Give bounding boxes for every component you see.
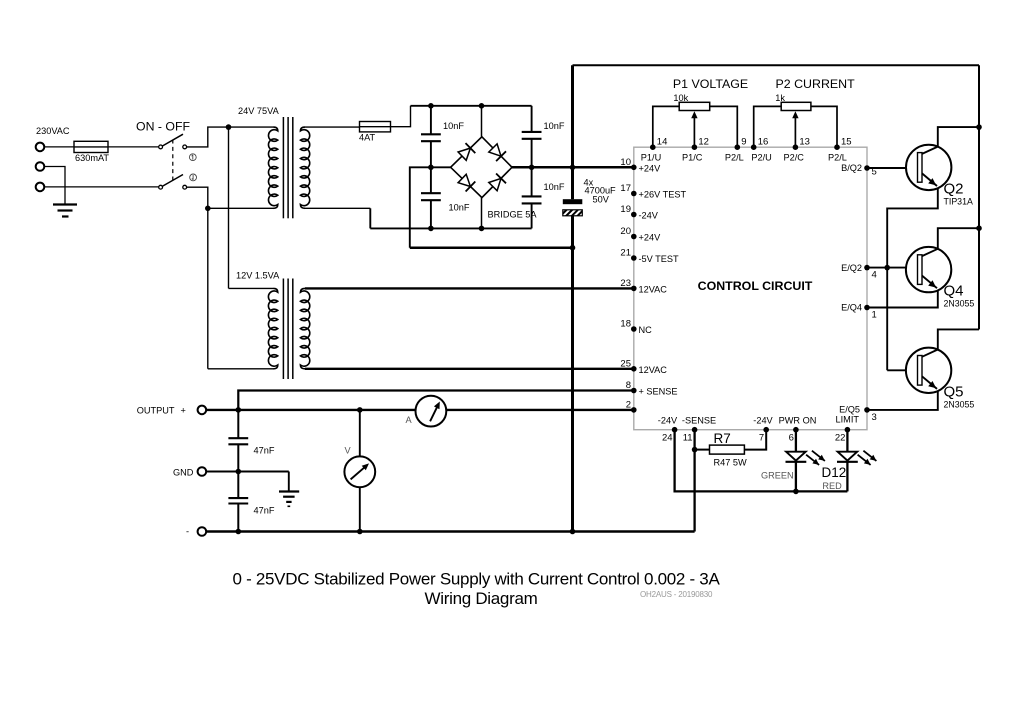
svg-text:P1/U: P1/U [641,153,661,163]
svg-text:47nF: 47nF [254,446,275,456]
wire voltmeter bottom [359,487,361,531]
svg-text:0 - 25VDC Stabilized Power Sup: 0 - 25VDC Stabilized Power Supply with C… [233,570,721,589]
wire output+ to pin 2 [206,409,634,411]
terminal GND [198,467,207,476]
terminal OUTPUT- [198,527,207,536]
svg-text:-SENSE: -SENSE [682,416,716,426]
resistor R7 [710,445,745,454]
transistor Q4 2N3055 [906,247,951,292]
pin 22 LIMIT [845,427,851,433]
fuse F1 630mAT [74,141,108,152]
svg-text:3: 3 [872,412,877,423]
wire Q2 collector [938,127,979,147]
switch S1 marker circled-1 [189,154,196,161]
wire LED green cathode [795,462,797,492]
pin 3 E/Q5 [864,407,870,413]
wire Q2 emitter [887,187,938,268]
pin 21 -5V TEST [631,255,637,261]
pin 24 -24V [672,427,678,433]
capacitor C5 4x4700uF positive plate [563,199,583,204]
pin 5 B/Q2 [864,165,870,171]
svg-text:P2/C: P2/C [784,153,805,163]
wire P1 upper end [653,106,679,147]
svg-text:10k: 10k [673,93,688,103]
svg-text:12V 1.5VA: 12V 1.5VA [236,271,280,281]
wire P2 lower end [811,106,837,147]
ammeter A1 [416,396,447,427]
wire lower rail (-24V) [410,246,573,249]
wire [207,208,209,368]
svg-text:21: 21 [620,248,631,259]
svg-text:630mAT: 630mAT [75,153,109,163]
svg-text:+24V: +24V [639,163,662,173]
svg-text:PWR ON: PWR ON [779,416,817,426]
node Q2 collector / rail [976,124,982,130]
wire middle rail (+24V) [512,166,634,169]
wire Q2 base [867,167,918,169]
node bottom rail / electrolytic [570,529,576,535]
wire bottom rail [206,530,694,533]
wire +SENSE to pin 8 [238,391,634,411]
wire [228,127,230,288]
wire GND to earth [288,472,290,492]
wire [369,208,371,228]
wire Q4 base [867,267,918,269]
pin 23 12VAC [631,286,637,292]
node bottom rail / voltmeter [357,529,363,535]
pin 7 -24V [763,427,769,433]
wire Q4 emitter [867,289,938,308]
wire P2 upper end [754,106,782,147]
wire [305,126,360,128]
node R7 / -SENSE [692,447,698,453]
svg-text:P1 VOLTAGE: P1 VOLTAGE [673,77,748,91]
wire [481,198,483,229]
pin 12 P1/C [692,144,698,150]
bridge D1 diamond [451,137,512,198]
svg-text:24V 75VA: 24V 75VA [238,106,280,116]
svg-text:11: 11 [683,433,693,444]
svg-text:15: 15 [841,137,852,148]
svg-text:E/Q2: E/Q2 [841,263,862,273]
wire R7 left [695,449,710,451]
ground [53,203,77,205]
pin 15 P2/L [834,144,840,150]
svg-text:GREEN: GREEN [761,471,794,481]
wire [187,127,274,147]
svg-text:-: - [186,527,189,537]
wire electrolytic positive [571,65,574,199]
svg-text:BRIDGE 5A: BRIDGE 5A [488,210,538,220]
voltmeter V1 [344,456,375,487]
pin 18 NC [631,326,637,332]
svg-text:E/Q4: E/Q4 [841,303,862,313]
capacitor C6 47nF [228,437,248,439]
svg-text:6: 6 [789,433,794,444]
wire bridge bottom rail [370,227,531,229]
transistor Q2 TIP31A [906,145,951,190]
pin 20 +24V [631,234,637,240]
svg-text:Q5: Q5 [944,383,964,400]
node LED rail [793,489,799,495]
pin 13 P2/C [793,144,799,150]
svg-text:20: 20 [620,226,631,237]
svg-text:Wiring Diagram: Wiring Diagram [425,589,538,608]
wire Q4 collector [938,228,979,249]
terminal OUTPUT+ [198,406,207,415]
pin 25 12VAC [631,366,637,372]
wire 12VAC top to pin 23 [305,287,634,289]
svg-text:10nF: 10nF [544,182,565,192]
node: primary branch top [226,124,232,130]
svg-text:4AT: 4AT [359,133,376,143]
svg-text:D12: D12 [822,465,847,480]
svg-text:8: 8 [626,380,631,391]
svg-text:14: 14 [657,137,668,148]
capacitor C1 10nF [421,133,441,135]
pin 6 PWR ON [793,427,799,433]
switch S1 pole 2 [159,185,163,189]
node middle rail / electrolytic [570,165,576,171]
wire cap chain [237,410,239,438]
wire outer right rail [978,65,980,329]
transformer T1 primary [268,127,277,208]
terminal L (live input) [36,143,45,152]
wire pin22 to LED [846,430,848,452]
svg-text:16: 16 [758,137,769,148]
wire [44,146,74,148]
pin 11 -SENSE [692,427,698,433]
node bottom rail / cap C1 chain [428,226,434,232]
svg-text:OUTPUT: OUTPUT [137,405,175,415]
capacitor C3 10nF [421,192,441,194]
svg-text:17: 17 [620,183,631,194]
svg-text:OH2AUS - 20190830: OH2AUS - 20190830 [640,590,713,599]
node middle rail / cap C2 chain [428,165,434,171]
svg-text:E/Q5: E/Q5 [839,405,860,415]
svg-text:+26V TEST: +26V TEST [639,190,687,200]
wire P2 wiper [794,114,796,148]
svg-text:A: A [406,415,413,425]
svg-text:NC: NC [639,325,653,335]
wire bridge left cap chain [430,106,432,135]
svg-text:10nF: 10nF [443,121,464,131]
transformer T1 secondary [300,127,309,208]
wire [305,207,370,209]
control circuit box U1 [634,147,867,430]
wire Q5 base [886,268,888,371]
transistor Q5 2N3055 [906,348,951,393]
wire GND [206,471,289,473]
svg-text:19: 19 [620,204,631,215]
wire [44,186,159,188]
pin 19 -24V [631,212,637,218]
wire Q5 emitter [867,389,938,410]
wire pin24 down [675,430,848,492]
potentiometer P2 body [781,102,811,110]
transformer T1 core [282,117,284,218]
node output+ / voltmeter [357,407,363,413]
svg-text:4: 4 [872,270,877,281]
svg-text:ON - OFF: ON - OFF [136,120,190,134]
bridge diode bottom-left [458,174,470,186]
wire outer top rail [573,64,980,66]
svg-text:R47 5W: R47 5W [714,458,748,468]
svg-text:2N3055: 2N3055 [944,299,975,309]
LED D12 RED [838,452,858,461]
wire P1 lower end [710,106,738,147]
svg-text:22: 22 [835,433,846,444]
svg-text:P2 CURRENT: P2 CURRENT [776,77,856,91]
wire voltmeter top [359,410,361,457]
capacitor C2 10nF [522,131,542,133]
node Q2 emitter / Q4 base [884,265,890,271]
svg-text:1k: 1k [775,93,785,103]
capacitor C5 negative plate (hatched) [563,210,583,216]
node bottom rail / cap chain [236,529,242,535]
switch S1 marker circled-0 [190,174,197,181]
svg-text:13: 13 [799,137,810,148]
node: primary branch bottom [205,206,211,212]
svg-text:230VAC: 230VAC [36,126,70,136]
node GND / cap chain [236,469,242,475]
svg-text:12VAC: 12VAC [639,284,668,294]
svg-text:10nF: 10nF [449,203,470,213]
svg-text:1: 1 [872,310,877,321]
svg-text:P2/U: P2/U [751,153,771,163]
terminal N (neutral input) [36,183,45,192]
LED D11 GREEN [786,452,806,461]
svg-text:12VAC: 12VAC [639,365,668,375]
svg-text:9: 9 [741,137,746,148]
node top rail / bridge anode [479,103,485,109]
bridge diode top-left [458,148,470,160]
pin 2 (output +) [631,407,637,413]
transformer T2 primary [268,288,277,368]
pin 4 E/Q2 [864,265,870,271]
svg-text:Q2: Q2 [944,180,964,197]
svg-text:18: 18 [620,319,631,330]
svg-text:-24V: -24V [753,416,773,426]
wire 12VAC bottom to pin 25 [305,368,634,370]
wire LED red cathode [846,462,848,492]
wire bridge right cap chain [531,106,533,132]
svg-text:+: + [181,405,186,415]
node middle rail right / C2 [529,165,535,171]
pin 16 P2/U [751,144,757,150]
svg-text:RED: RED [822,481,842,491]
pin 14 P1/U [650,144,656,150]
svg-text:10: 10 [620,157,631,168]
terminal E (earth input) [36,162,45,171]
svg-text:CONTROL CIRCUIT: CONTROL CIRCUIT [698,279,813,293]
ground (output) [279,490,299,492]
svg-text:10nF: 10nF [544,121,565,131]
pin 8 + SENSE [631,388,637,394]
wire electrolytic negative [571,216,574,532]
svg-text:7: 7 [759,433,764,444]
svg-text:-24V: -24V [658,416,678,426]
svg-text:GND: GND [173,467,194,477]
wire R7 right [744,430,766,450]
node bottom rail / bridge [479,226,485,232]
node output+ / cap chain [236,407,242,413]
potentiometer P1 body [679,102,710,110]
pin 10 +24V [631,165,637,171]
bridge diode bottom-right [489,178,501,190]
fuse F2 4AT [360,122,391,132]
wire [44,167,65,205]
transformer T2 core [282,279,284,380]
svg-text:TIP31A: TIP31A [944,196,973,206]
pin 17 +26V TEST [631,191,637,197]
wire P1 wiper [693,114,695,148]
svg-text:+24V: +24V [639,233,662,243]
wire [391,106,411,127]
wire [187,187,274,208]
capacitor C4 10nF [522,195,542,197]
svg-text:50V: 50V [593,195,610,205]
wire bridge minus to lower rail [410,167,451,247]
svg-text:P1/C: P1/C [682,153,703,163]
svg-text:LIMIT: LIMIT [836,415,860,425]
svg-text:P2/L: P2/L [725,153,744,163]
svg-text:-5V TEST: -5V TEST [639,254,680,264]
switch S1 pole 1 [159,145,163,149]
svg-text:47nF: 47nF [254,506,275,516]
node lower rail / electrolytic [570,245,576,251]
node top rail / cap C1 [428,103,434,109]
svg-text:24: 24 [662,433,673,444]
wire pin11 down [693,430,695,532]
svg-text:12: 12 [698,137,709,148]
svg-text:V: V [345,446,352,456]
transformer T2 secondary [300,288,309,368]
wire pin6 to LED [795,430,797,452]
switch S1 linkage (dashed) [172,140,174,181]
svg-text:P2/L: P2/L [828,153,847,163]
svg-text:B/Q2: B/Q2 [841,163,862,173]
pin 9 P2/L [735,144,741,150]
capacitor C7 47nF [228,497,248,499]
svg-text:-24V: -24V [639,211,659,221]
wire [108,146,159,148]
svg-text:Q4: Q4 [944,283,964,300]
bridge diode top-right [489,144,501,156]
svg-text:+ SENSE: + SENSE [639,387,678,397]
pin 1 E/Q4 [864,305,870,311]
wire Q5 collector [938,329,979,350]
svg-text:2N3055: 2N3055 [944,399,975,409]
wire [481,106,483,137]
node Q4 collector / rail [976,225,982,231]
wire bridge top rail [411,105,532,107]
svg-text:R7: R7 [714,431,731,446]
